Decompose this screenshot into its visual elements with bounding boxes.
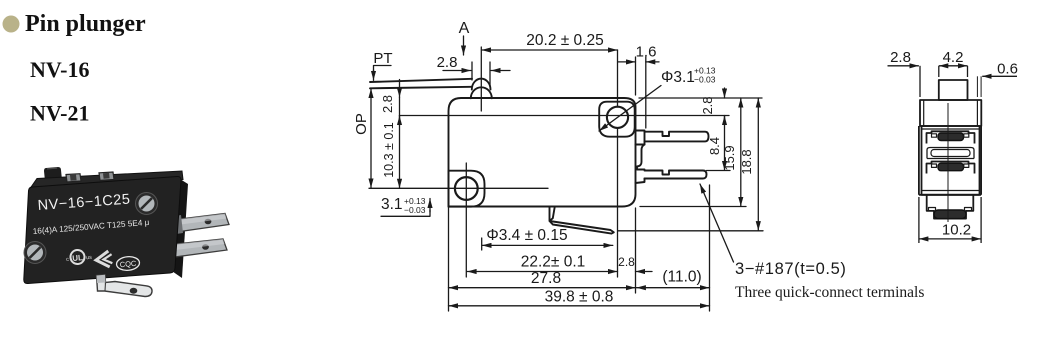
ext line plunger left 2.8 [471,62,473,80]
end view terminal slot row 1 [927,131,975,143]
ext line hole centre to right dims [636,115,730,117]
terminal 1 top blade [645,132,709,142]
end view lower divider [922,190,980,192]
label A pointer [463,36,465,55]
dim phi3.4 [482,244,613,246]
end view body bottom edge [919,194,981,196]
photo top face terminal tab 2 [99,172,114,180]
svg-text:A: A [459,20,470,37]
end view bottom slot ears [929,208,972,211]
svg-text:UL: UL [72,253,84,263]
dim 4.2 end view [939,65,968,67]
svg-text:−0.03: −0.03 [404,205,426,215]
photo front face [24,176,181,283]
dim OP vertical [370,89,372,188]
switch body outline [449,98,636,207]
photo top face [29,171,183,190]
ext line plunger right 2.8 [489,62,491,86]
dim 8.4 line [724,116,726,171]
end view centre line [947,103,949,222]
svg-text:2.8: 2.8 [618,255,635,269]
svg-text:3.1: 3.1 [381,196,403,213]
svg-text:OP: OP [353,113,370,135]
leader 3-#187 [700,184,734,262]
svg-text:2.8: 2.8 [700,96,715,114]
svg-text:4.2: 4.2 [943,49,964,66]
ext line blade tip to 18.8 [618,230,763,232]
lever bottom line [370,87,471,89]
dim PT pointer [374,66,392,72]
lever top line [370,79,472,82]
svg-text:PT: PT [373,50,392,67]
dim 1.6 left arrow [618,61,636,63]
ext line body bottom to 15.9 [640,206,746,208]
svg-text:39.8 ± 0.8: 39.8 ± 0.8 [545,289,614,306]
dim 39.8 [449,305,710,307]
pin plunger upper arc [472,79,491,90]
end view groove inner [931,150,970,157]
end view bottom section [927,195,974,219]
bottom-left mounting hole [455,177,478,200]
plunger centre line [480,47,482,111]
svg-text:(11.0): (11.0) [662,269,701,286]
leader phi3.1 top [599,86,661,132]
body edge between terminals [637,145,645,170]
ext line hole centres horizontal left [369,187,548,189]
end view head seam left [923,100,925,126]
terminal mount step upper [635,131,645,145]
dim 10.2 end view [919,238,981,240]
dim 27.8 [449,287,636,289]
end view mid section [922,126,980,195]
top-right mounting hole [607,107,628,128]
dim 2.8 right top arrow [724,88,726,98]
end view groove row [927,148,974,159]
ext line seam to left dims [400,115,449,117]
photo CQC logo [116,256,140,272]
ext line body right edge above [635,57,637,95]
dim 2.8 plunger right arrow [491,70,510,72]
photo terminal 2 root [167,241,175,260]
top-right mounting boss [599,102,635,137]
svg-text:NV-21: NV-21 [30,101,89,126]
end view outer right edge [980,126,982,195]
dim 2.8 plunger left arrow [443,70,471,72]
svg-text:Φ3.1: Φ3.1 [661,69,695,86]
leader 3.1 bottom hole [381,210,430,216]
end view head bottom double line [922,128,980,130]
photo plunger button [44,167,62,181]
terminal mount step middle bottom [636,179,645,184]
svg-text:15.9: 15.9 [722,145,737,170]
dim 8.4 up arrow [724,116,726,125]
end view bottom slot dark [934,210,966,219]
svg-text:Φ3.4 ± 0.15: Φ3.4 ± 0.15 [486,227,567,244]
dim 1.6 right arrow [646,61,659,63]
ext line terminal tips down [709,185,711,311]
ext line body left edge down [448,207,450,311]
svg-text:27.8: 27.8 [531,270,561,287]
svg-text:NV-16: NV-16 [30,57,89,82]
svg-text:1.6: 1.6 [636,44,657,61]
svg-text:10.3 ± 0.1: 10.3 ± 0.1 [382,122,396,178]
svg-text:0.6: 0.6 [997,61,1018,78]
svg-text:20.2 ± 0.25: 20.2 ± 0.25 [526,32,603,49]
photo screw bottom left [24,242,46,264]
pin plunger lower arc [471,87,492,98]
photo right side face [174,179,188,278]
photo CCC logo [95,251,112,268]
svg-text:Three quick-connect terminals: Three quick-connect terminals [735,284,924,301]
svg-text:us: us [86,255,93,262]
photo terminal 3 bent blade [97,275,153,297]
ext line bottom hole centre vertical [465,163,467,277]
dim left connector segment [399,97,401,115]
ext line phi3.4 short [481,238,483,250]
dim 22.2 [467,271,617,273]
dim (11.0) [636,287,709,289]
end view outer left edge [918,126,920,195]
svg-text:CQC: CQC [119,259,137,269]
svg-text:10.2: 10.2 [942,222,971,239]
svg-text:Pin plunger: Pin plunger [25,11,146,37]
cover seam line through body [449,115,636,117]
photo screw top right [136,193,158,215]
photo top face terminal tab 1 [66,174,81,182]
dim 20.2±0.25 [482,49,618,51]
ext line body top to right dims [639,97,762,99]
dim 2.8/10.3 up arrow [399,116,401,125]
end view dims [888,66,1018,243]
end view head block [920,100,981,126]
photo terminal 2 blade [171,239,227,258]
svg-text:2.8: 2.8 [437,54,458,71]
ext line body right edge below [635,208,637,293]
svg-text:3−#187(t=0.5): 3−#187(t=0.5) [735,260,846,278]
dim 15.9 [740,98,742,206]
end view terminal slot row 2 [927,162,975,174]
photo UL logo [65,249,92,265]
photo terminal 1 blade [180,214,229,232]
bullet dot [3,16,20,33]
svg-text:8.4: 8.4 [707,137,722,155]
svg-text:22.2± 0.1: 22.2± 0.1 [521,254,586,271]
ext line terminal2 top to 8.4 [707,170,731,172]
svg-text:2.8: 2.8 [890,49,911,66]
dim 10.3 line [399,116,401,189]
dim 2.8 left down arrow [399,80,401,98]
svg-text:2.8: 2.8 [380,95,395,113]
dim 18.8 [757,98,759,231]
dim 2.8 bottom right arrow [636,271,653,273]
dim 2.8 end view [888,65,919,67]
ext line top hole centre below [617,128,619,277]
ext line step right above [645,57,647,128]
ext line top hole centre vertical [617,50,619,107]
terminal 2 middle blade [645,171,707,179]
dim 0.6 end view [982,75,1017,77]
photo terminal 1 root [175,215,183,234]
bottom-left mounting boss [449,171,485,207]
svg-text:−0.03: −0.03 [694,75,716,85]
terminal 3 common bent blade [550,207,614,234]
svg-text:18.8: 18.8 [739,149,754,174]
end view plunger block [939,80,968,100]
end view head seam right 0.6 [976,100,978,126]
